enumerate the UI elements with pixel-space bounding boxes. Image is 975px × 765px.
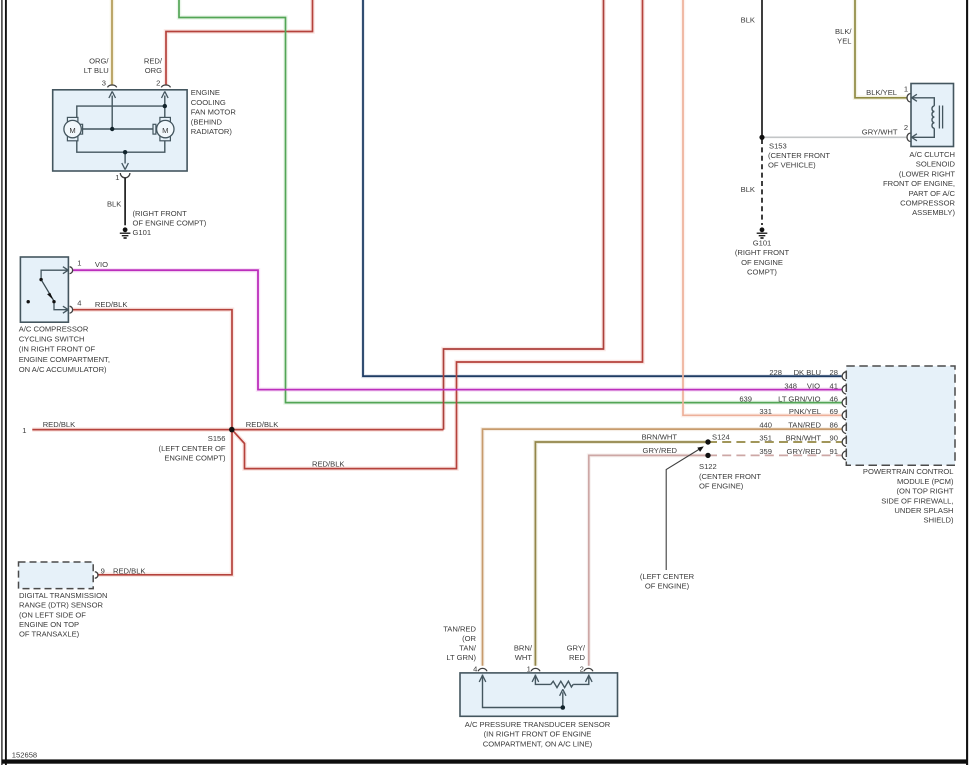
svg-text:VIO: VIO <box>807 381 820 390</box>
arrowhead fan pin2 up <box>162 91 169 98</box>
pin 4 connector arc sensor <box>478 668 487 671</box>
arrowhead fan pin3 up <box>109 91 116 98</box>
svg-text:1: 1 <box>115 173 119 182</box>
svg-text:BLK: BLK <box>741 16 755 25</box>
svg-text:VIO: VIO <box>95 260 108 269</box>
svg-text:BLK: BLK <box>107 199 121 208</box>
node fan upper bus junction <box>163 104 167 108</box>
node S122 <box>705 453 710 458</box>
wire pin4 stem <box>483 675 562 708</box>
svg-text:TAN/: TAN/ <box>459 644 477 653</box>
svg-text:RED/BLK: RED/BLK <box>312 460 345 469</box>
wire DK BLU from top to PCM pin 28 <box>363 0 842 376</box>
svg-text:BRN/: BRN/ <box>514 644 533 653</box>
A/C compressor cycling switch box <box>20 257 68 322</box>
svg-text:OF VEHICLE): OF VEHICLE) <box>768 161 816 170</box>
svg-text:RADIATOR): RADIATOR) <box>191 127 233 136</box>
svg-text:152658: 152658 <box>12 751 37 760</box>
wire LT GRN/VIO from top to PCM pin 46 <box>179 0 842 403</box>
wire fan internal upper bus <box>77 106 165 117</box>
arrowhead switch blade <box>48 293 53 298</box>
wire BLK from top to splice S153 <box>761 0 763 137</box>
pin 46 connector arc <box>842 398 846 407</box>
ground G101 right <box>757 227 768 238</box>
wire BLK dashed S153 to ground G101 <box>761 139 763 225</box>
pin 1 connector arc solenoid <box>907 94 910 102</box>
svg-text:ORG/: ORG/ <box>89 57 109 66</box>
svg-text:M: M <box>162 126 168 135</box>
svg-text:GRY/WHT: GRY/WHT <box>862 127 898 136</box>
svg-text:OF TRANSAXLE): OF TRANSAXLE) <box>19 630 80 639</box>
svg-text:SOLENOID: SOLENOID <box>916 160 956 169</box>
svg-text:348: 348 <box>784 381 797 390</box>
pin 28 connector arc <box>842 372 846 381</box>
svg-text:COOLING: COOLING <box>191 98 226 107</box>
svg-text:G101: G101 <box>133 228 152 237</box>
pin 86 connector arc <box>842 425 846 434</box>
svg-text:(IN RIGHT FRONT OF ENGINE: (IN RIGHT FRONT OF ENGINE <box>484 730 592 739</box>
svg-text:CYCLING SWITCH: CYCLING SWITCH <box>19 335 85 344</box>
svg-text:91: 91 <box>830 447 838 456</box>
wire wiper stem <box>562 692 564 706</box>
pin 1 connector arc switch <box>70 267 73 274</box>
wire BRN/WHT dashed S124 to PCM pin 90 <box>708 441 842 443</box>
wire pin1 lead <box>535 675 550 685</box>
wire switch pin1 internal <box>41 270 68 278</box>
svg-text:WHT: WHT <box>515 653 533 662</box>
svg-text:(RIGHT FRONT: (RIGHT FRONT <box>735 248 790 257</box>
svg-text:SIDE OF FIREWALL,: SIDE OF FIREWALL, <box>881 496 953 505</box>
svg-text:FRONT OF ENGINE,: FRONT OF ENGINE, <box>883 179 955 188</box>
ground G101 left <box>120 227 131 238</box>
DTR sensor box (dashed) <box>19 562 94 589</box>
svg-text:RED/BLK: RED/BLK <box>95 300 128 309</box>
svg-text:2: 2 <box>580 665 584 674</box>
A/C pressure transducer sensor box <box>460 673 618 716</box>
A/C clutch solenoid box <box>911 84 954 147</box>
svg-text:PART OF A/C: PART OF A/C <box>909 189 956 198</box>
arrowhead sensor pin2 stem <box>586 675 593 682</box>
svg-text:FAN MOTOR: FAN MOTOR <box>191 108 237 117</box>
border bottom bar <box>2 759 967 763</box>
arrowhead solenoid pin2 <box>912 134 917 141</box>
svg-text:BLK: BLK <box>741 185 755 194</box>
svg-text:ENGINE COMPARTMENT,: ENGINE COMPARTMENT, <box>19 355 110 364</box>
svg-text:OF ENGINE COMPT): OF ENGINE COMPT) <box>133 219 207 228</box>
svg-text:639: 639 <box>739 394 752 403</box>
svg-text:RANGE (DTR) SENSOR: RANGE (DTR) SENSOR <box>19 601 103 610</box>
svg-text:LT BLU: LT BLU <box>84 66 109 75</box>
svg-text:OF ENGINE: OF ENGINE <box>741 258 783 267</box>
svg-text:S124: S124 <box>712 432 730 441</box>
border left outer <box>1 0 3 765</box>
svg-text:1: 1 <box>22 426 26 435</box>
svg-text:PNK/YEL: PNK/YEL <box>789 407 821 416</box>
node switch blade end <box>52 300 55 303</box>
svg-text:2: 2 <box>156 78 160 87</box>
svg-text:(RIGHT FRONT: (RIGHT FRONT <box>133 209 188 218</box>
switch blade <box>42 281 54 301</box>
pin 69 connector arc <box>842 411 846 420</box>
svg-text:(LEFT CENTER OF: (LEFT CENTER OF <box>159 444 226 453</box>
PCM box (dashed) <box>846 366 955 465</box>
svg-text:(BEHIND: (BEHIND <box>191 117 223 126</box>
wire fan internal arrow pin3 stem <box>111 96 113 130</box>
wire fan internal middle bus <box>83 128 154 130</box>
svg-text:351: 351 <box>759 434 772 443</box>
FAN MOTOR INTERIOR <box>77 96 165 164</box>
svg-text:M: M <box>69 126 75 135</box>
svg-text:BRN/WHT: BRN/WHT <box>642 433 678 442</box>
wire RED/BLK switch pin 4 through S156 to DTR sensor <box>73 310 232 575</box>
svg-text:46: 46 <box>830 394 838 403</box>
svg-text:RED/: RED/ <box>144 57 163 66</box>
coil L1 solenoid interior <box>912 98 943 138</box>
svg-text:BLK/: BLK/ <box>835 27 852 36</box>
svg-text:(LOWER RIGHT: (LOWER RIGHT <box>899 169 955 178</box>
svg-text:G101: G101 <box>753 238 772 247</box>
svg-text:UNDER SPLASH: UNDER SPLASH <box>894 506 953 515</box>
svg-text:RED/BLK: RED/BLK <box>43 420 75 429</box>
arrowhead sensor pin1 stem <box>532 675 539 682</box>
pin 90 connector arc <box>842 438 846 447</box>
svg-text:(CENTER FRONT: (CENTER FRONT <box>768 151 830 160</box>
wire BLK fan pin1 to ground <box>124 178 126 226</box>
pin 2 connector arc sensor <box>584 668 593 671</box>
wire halos <box>32 0 906 666</box>
svg-text:(IN RIGHT FRONT OF: (IN RIGHT FRONT OF <box>19 345 96 354</box>
svg-text:228: 228 <box>769 368 782 377</box>
svg-text:RED/BLK: RED/BLK <box>113 567 146 576</box>
svg-text:ASSEMBLY): ASSEMBLY) <box>912 208 955 217</box>
svg-text:RED: RED <box>569 653 586 662</box>
node S153 <box>759 135 764 140</box>
svg-text:28: 28 <box>830 368 838 377</box>
leader line to S124 <box>666 449 700 570</box>
svg-text:LT GRN/VIO: LT GRN/VIO <box>778 394 820 403</box>
svg-text:ENGINE COMPT): ENGINE COMPT) <box>164 454 226 463</box>
wire PNK/YEL from top to PCM pin 69 <box>683 0 842 415</box>
node S124 <box>705 439 710 444</box>
border left inner <box>5 0 7 765</box>
arrowhead solenoid pin1 <box>912 94 917 101</box>
svg-text:1: 1 <box>904 85 908 94</box>
svg-text:ENGINE: ENGINE <box>191 88 220 97</box>
svg-text:4: 4 <box>77 298 81 307</box>
pin 3 connector arc <box>108 85 117 87</box>
svg-text:GRY/: GRY/ <box>567 644 586 653</box>
svg-text:(ON LEFT SIDE OF: (ON LEFT SIDE OF <box>19 610 86 619</box>
wire GRY/RED sensor pin 2 to splice S122 <box>589 455 708 665</box>
svg-text:OF ENGINE): OF ENGINE) <box>645 582 690 591</box>
pin 4 connector arc switch <box>70 306 73 313</box>
svg-text:ORG: ORG <box>145 66 162 75</box>
svg-text:S156: S156 <box>208 434 226 443</box>
resistor R sensor potentiometer <box>551 681 573 687</box>
svg-text:(LEFT CENTER: (LEFT CENTER <box>640 572 695 581</box>
svg-text:41: 41 <box>830 381 838 390</box>
svg-text:TAN/RED: TAN/RED <box>788 420 821 429</box>
wire BLK/YEL from top to solenoid pin 1 <box>855 0 907 98</box>
motor M right <box>153 117 174 140</box>
wire RED/BLK B from top to splice S156 <box>233 0 643 469</box>
wire switch pin4 internal <box>54 303 68 310</box>
node S156 <box>229 427 235 433</box>
svg-text:A/C PRESSURE TRANSDUCER SENSOR: A/C PRESSURE TRANSDUCER SENSOR <box>465 720 611 729</box>
motor M left <box>64 117 83 140</box>
svg-text:3: 3 <box>102 78 106 87</box>
engine cooling fan motor box <box>53 90 187 171</box>
svg-text:1: 1 <box>77 258 81 267</box>
arrowhead switch pin4 <box>63 306 68 313</box>
arrowhead switch pin1 <box>63 267 68 274</box>
svg-text:9: 9 <box>101 567 105 576</box>
svg-text:90: 90 <box>830 434 838 443</box>
wire RED/ORG from top to fan pin 2 <box>166 0 313 85</box>
sensor interior wires <box>483 675 589 708</box>
svg-text:COMPARTMENT, ON A/C LINE): COMPARTMENT, ON A/C LINE) <box>483 739 593 748</box>
node fan middle bus junction <box>110 127 114 131</box>
arrowhead sensor wiper <box>560 689 566 696</box>
wire fan internal pin1 stem <box>124 152 126 163</box>
wire GRY/RED dashed S122 to PCM pin 91 <box>708 454 842 456</box>
pin 1 connector arc sensor <box>531 668 540 671</box>
arrowhead sensor pin4 stem <box>479 675 486 682</box>
svg-text:DK BLU: DK BLU <box>794 368 821 377</box>
wire fan internal arrow pin2 stem <box>164 96 166 119</box>
node switch NC contact <box>27 300 30 303</box>
wire VIO switch pin 1 to PCM pin 41 <box>73 270 842 389</box>
svg-text:S122: S122 <box>699 462 717 471</box>
svg-text:ENGINE ON TOP: ENGINE ON TOP <box>19 620 79 629</box>
svg-text:69: 69 <box>830 407 838 416</box>
svg-text:GRY/RED: GRY/RED <box>787 447 822 456</box>
wire fan internal bottom bus <box>77 141 165 152</box>
svg-text:RED/BLK: RED/BLK <box>246 420 278 429</box>
pin 41 connector arc <box>842 385 846 394</box>
svg-text:S153: S153 <box>769 141 787 150</box>
wire BRN/WHT sensor pin 1 to splice S124 <box>535 442 708 666</box>
svg-text:(OR: (OR <box>462 634 476 643</box>
wire ORG/LT BLU to fan pin 3 <box>111 0 113 85</box>
svg-text:BLK/YEL: BLK/YEL <box>866 88 897 97</box>
pin 9 connector arc DTR <box>95 572 98 578</box>
arrowhead fan pin1 down <box>122 163 129 170</box>
node fan bottom bus junction <box>123 150 127 154</box>
svg-text:BRN/WHT: BRN/WHT <box>786 434 822 443</box>
svg-text:SHIELD): SHIELD) <box>924 516 954 525</box>
wire RED/BLK A from top to splice S156 <box>444 0 604 430</box>
svg-text:A/C COMPRESSOR: A/C COMPRESSOR <box>19 324 89 333</box>
svg-text:A/C CLUTCH: A/C CLUTCH <box>909 150 955 159</box>
pin 1 connector arc <box>120 173 130 178</box>
svg-text:YEL: YEL <box>837 37 851 46</box>
wire GRY/WHT S153 to solenoid pin 2 <box>764 136 907 138</box>
border right <box>966 0 968 765</box>
wire pin2 lead <box>573 675 589 685</box>
svg-text:OF ENGINE): OF ENGINE) <box>699 482 744 491</box>
node sensor wiper junction <box>561 705 566 710</box>
svg-text:440: 440 <box>759 420 772 429</box>
svg-text:LT GRN): LT GRN) <box>446 653 476 662</box>
svg-text:359: 359 <box>759 447 772 456</box>
svg-text:2: 2 <box>904 123 908 132</box>
svg-text:MODULE (PCM): MODULE (PCM) <box>897 477 954 486</box>
pin 2 connector arc <box>161 85 170 87</box>
wire RED/BLK horizontal through S156 <box>32 429 443 431</box>
svg-text:DIGITAL TRANSMISSION: DIGITAL TRANSMISSION <box>19 591 107 600</box>
svg-text:POWERTRAIN CONTROL: POWERTRAIN CONTROL <box>863 467 954 476</box>
svg-text:GRY/RED: GRY/RED <box>643 446 678 455</box>
svg-text:4: 4 <box>473 665 477 674</box>
svg-text:(ON TOP RIGHT: (ON TOP RIGHT <box>897 487 954 496</box>
svg-text:1: 1 <box>527 665 531 674</box>
svg-text:86: 86 <box>830 420 838 429</box>
pin 2 connector arc solenoid <box>907 133 910 141</box>
svg-text:COMPRESSOR: COMPRESSOR <box>900 199 955 208</box>
pin 91 connector arc <box>842 451 846 460</box>
svg-text:ON A/C ACCUMULATOR): ON A/C ACCUMULATOR) <box>19 365 107 374</box>
node switch pivot <box>39 278 42 281</box>
svg-text:TAN/RED: TAN/RED <box>443 625 476 634</box>
svg-text:(CENTER FRONT: (CENTER FRONT <box>699 472 761 481</box>
arrowhead leader <box>697 446 704 452</box>
wire TAN/RED sensor pin 4 to PCM pin 86 <box>483 429 842 666</box>
svg-text:COMPT): COMPT) <box>747 268 777 277</box>
svg-text:331: 331 <box>759 407 772 416</box>
